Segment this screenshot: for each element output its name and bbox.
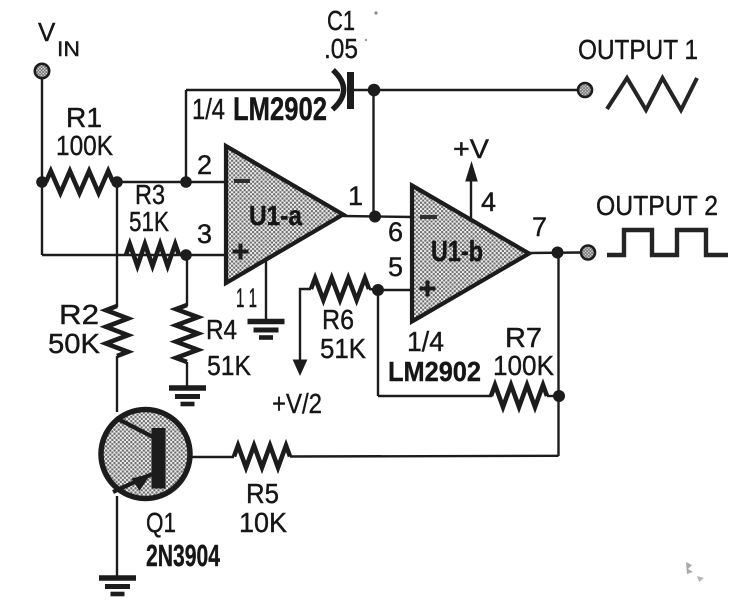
wire U1-b output pin 7 xyxy=(529,251,580,254)
op-amp U1-a body xyxy=(226,146,343,283)
op-amp U1-b minus input symbol xyxy=(420,215,437,219)
svg-text:3: 3 xyxy=(197,219,212,249)
svg-text:5: 5 xyxy=(388,252,403,282)
wire R5 to Q1 base xyxy=(165,456,234,458)
svg-text:R4: R4 xyxy=(206,314,237,345)
op-amp U1-a plus input symbol xyxy=(233,244,249,260)
ground below pin 11 xyxy=(248,319,285,325)
svg-text:R2: R2 xyxy=(59,299,99,330)
capacitor C1 straight plate xyxy=(347,72,354,109)
junction dot pin5 node xyxy=(372,284,384,296)
terminal VIN xyxy=(35,64,49,78)
wire C1 left horizontal xyxy=(186,89,340,91)
svg-text:R7: R7 xyxy=(505,322,542,353)
svg-text:1/4: 1/4 xyxy=(407,326,444,357)
svg-text:1/4: 1/4 xyxy=(192,94,225,126)
svg-text:LM2902: LM2902 xyxy=(233,91,327,127)
ground below Q1 xyxy=(99,575,136,581)
resistor R5 xyxy=(234,446,290,468)
junction dot R7 right xyxy=(553,390,565,402)
svg-text:R1: R1 xyxy=(66,102,102,133)
waveform triangle (OUTPUT 1) xyxy=(607,78,697,110)
svg-text:U1-a: U1-a xyxy=(249,200,302,231)
junction dot C1 output node xyxy=(368,84,381,97)
svg-text:51K: 51K xyxy=(129,206,169,237)
junction dot U1-a out / pin6 xyxy=(369,211,381,223)
power +V arrowhead xyxy=(465,161,478,182)
resistor R6 xyxy=(311,278,369,300)
svg-text:R6: R6 xyxy=(322,304,354,335)
svg-text:OUTPUT 1: OUTPUT 1 xyxy=(578,34,698,65)
transistor Q1 emitter line xyxy=(113,474,152,492)
scan smudge bottom right xyxy=(686,562,693,574)
svg-text:2: 2 xyxy=(197,150,212,180)
junction dot pin3 / R4 top xyxy=(180,249,192,261)
wire pin 11 xyxy=(265,260,267,321)
svg-text:100K: 100K xyxy=(56,130,113,161)
wire C1 branch vertical xyxy=(185,90,187,182)
junction dot R1 left xyxy=(36,176,48,188)
wire pin 5 xyxy=(378,289,412,291)
scan speckle top xyxy=(374,11,377,14)
wire R4 top xyxy=(186,255,188,306)
svg-text:51K: 51K xyxy=(320,333,366,364)
wire VIN vertical to R1 node xyxy=(41,79,43,182)
wire R6 right stub xyxy=(369,289,378,290)
transistor Q1 body circle xyxy=(101,410,190,499)
terminal OUTPUT 1 xyxy=(578,83,592,97)
resistor R3 xyxy=(126,244,179,266)
resistor R7 xyxy=(491,385,547,407)
svg-text:.05: .05 xyxy=(324,33,358,64)
resistor R4 xyxy=(176,305,198,362)
wire R4 bottom to ground xyxy=(186,362,188,387)
svg-text:V: V xyxy=(38,17,56,47)
wire pin3 rail xyxy=(42,254,226,256)
op-amp U1-b plus input symbol xyxy=(420,281,436,297)
junction dot pin2 / C1 branch xyxy=(180,176,192,188)
svg-text:50K: 50K xyxy=(48,328,100,359)
wire R7 right stub xyxy=(547,395,559,397)
wire R2 top xyxy=(116,182,118,307)
transistor Q1 emitter arrowhead xyxy=(132,474,152,492)
svg-text:LM2902: LM2902 xyxy=(388,356,481,387)
resistor R1 xyxy=(46,171,113,193)
wire Q1 emitter to ground xyxy=(116,496,118,578)
transistor Q1 collector line xyxy=(116,418,153,437)
svg-text:+V/2: +V/2 xyxy=(272,388,322,419)
svg-text:+V: +V xyxy=(453,134,489,164)
resistor R2 xyxy=(106,306,128,356)
junction dot pin 7 node xyxy=(552,247,564,259)
wire R1 left stub xyxy=(42,181,47,183)
svg-text:R5: R5 xyxy=(246,478,279,509)
wire feedback bottom horizontal xyxy=(290,455,559,458)
svg-text:4: 4 xyxy=(481,187,496,217)
scan speckle near OUTPUT1 wave xyxy=(365,39,367,41)
op-amp U1-b body xyxy=(412,186,529,322)
terminal OUTPUT 2 xyxy=(581,246,595,260)
+V/2 arrowhead (down) xyxy=(293,360,308,377)
power +V arrow line xyxy=(470,176,472,218)
svg-text:U1-b: U1-b xyxy=(431,236,483,268)
svg-text:1 1: 1 1 xyxy=(236,283,257,313)
wire R1 right to pin2 rail xyxy=(113,181,226,183)
wire output node vertical xyxy=(372,90,374,217)
capacitor C1 curved plate xyxy=(333,70,344,110)
waveform square (OUTPUT 2) xyxy=(607,230,728,255)
svg-text:10K: 10K xyxy=(239,507,287,538)
svg-text:C1: C1 xyxy=(327,5,355,36)
wire pin5 node down xyxy=(377,290,379,396)
svg-text:OUTPUT 2: OUTPUT 2 xyxy=(596,190,718,221)
svg-text:Q1: Q1 xyxy=(146,507,176,538)
svg-text:1: 1 xyxy=(348,181,363,211)
wire R2 bottom to Q1 collector xyxy=(116,356,118,412)
svg-text:6: 6 xyxy=(388,217,403,247)
wire feedback vertical xyxy=(557,253,559,456)
wire VIN vertical down to pin3 rail xyxy=(41,182,43,255)
op-amp U1-a minus input symbol xyxy=(234,179,250,183)
svg-text:IN: IN xyxy=(57,38,80,61)
svg-text:100K: 100K xyxy=(493,350,554,381)
ground below R4 xyxy=(169,385,206,391)
wire U1-a output xyxy=(343,216,412,217)
svg-text:7: 7 xyxy=(532,212,547,242)
svg-text:51K: 51K xyxy=(207,350,251,381)
wire C1 right to OUTPUT1 xyxy=(354,89,578,91)
wire R6 left corner xyxy=(300,289,311,363)
transistor Q1 base bar xyxy=(152,428,166,489)
junction dot R1 right / R2 top xyxy=(111,176,123,188)
wire to R7 left xyxy=(378,395,492,397)
svg-text:2N3904: 2N3904 xyxy=(146,538,221,573)
